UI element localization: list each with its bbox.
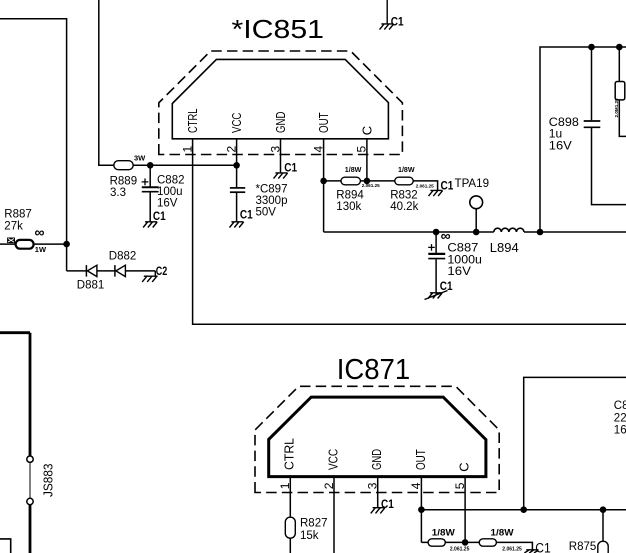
resistor R894	[341, 177, 360, 185]
resistor 1/8W right IC871	[479, 539, 496, 546]
test point TPA19	[470, 196, 483, 209]
op-amp regulator IC851 dashed outline	[159, 51, 403, 155]
svg-text:1/8W: 1/8W	[432, 528, 456, 538]
svg-text:22: 22	[614, 412, 626, 424]
wire VCC feed vertical	[99, 0, 114, 165]
capacitor C897	[236, 165, 238, 187]
svg-text:OUT: OUT	[316, 112, 331, 133]
resistor R889	[114, 161, 133, 170]
svg-text:C1: C1	[441, 178, 454, 192]
label IC871	[337, 354, 411, 386]
label C8xx partial	[614, 400, 626, 437]
wire C898 net	[540, 47, 626, 232]
svg-text:GND: GND	[273, 112, 288, 133]
wire R894 row	[324, 181, 438, 191]
svg-text:OUT: OUT	[413, 449, 428, 470]
node pin5	[364, 178, 371, 185]
node VCC junction	[233, 162, 240, 169]
svg-text:R832: R832	[390, 189, 418, 201]
svg-text:C8: C8	[614, 400, 626, 412]
wire pin4 IC871	[420, 477, 422, 543]
node pin5 IC871	[462, 539, 469, 546]
svg-text:3.3: 3.3	[110, 187, 126, 199]
connector JS883 rail	[0, 333, 30, 553]
svg-text:D882: D882	[109, 251, 137, 263]
svg-text:16V: 16V	[549, 138, 572, 152]
node R875	[600, 506, 607, 513]
svg-text:2.061.25: 2.061.25	[502, 547, 522, 553]
svg-text:C1: C1	[153, 209, 166, 223]
wire pin2 VCC	[236, 139, 238, 166]
svg-text:40.2k: 40.2k	[390, 201, 418, 213]
svg-text:R894: R894	[336, 189, 364, 201]
svg-text:∞: ∞	[35, 224, 45, 240]
ground C1 of C882	[143, 222, 157, 228]
svg-text:130k: 130k	[336, 201, 361, 213]
wire resistor row IC871	[421, 542, 532, 549]
svg-text:C: C	[359, 126, 374, 135]
svg-text:C1: C1	[240, 207, 253, 221]
svg-text:C1: C1	[535, 541, 551, 553]
svg-text:2.061.25: 2.061.25	[416, 183, 434, 188]
svg-text:C1: C1	[284, 161, 297, 175]
resistor R887 fusible box	[7, 238, 15, 244]
svg-text:R889: R889	[110, 175, 138, 187]
svg-text:1/8W: 1/8W	[398, 165, 415, 174]
svg-text:50V: 50V	[256, 206, 277, 218]
svg-text:CTRL: CTRL	[185, 109, 200, 134]
node C882 junction	[147, 162, 154, 169]
svg-text:CTRL: CTRL	[282, 438, 297, 470]
wire pin5 IC871	[464, 477, 466, 543]
ground C1 pin3	[274, 173, 288, 179]
resistor R875	[602, 510, 604, 542]
svg-text:*C897: *C897	[256, 183, 288, 195]
ground C1 pin3 IC871	[371, 508, 385, 514]
resistor R827	[285, 517, 295, 538]
node R top-right	[616, 44, 623, 51]
svg-text:C1: C1	[381, 497, 394, 511]
ground C1 bottom	[524, 550, 538, 553]
resistor top-right vertical	[619, 47, 626, 136]
capacitor C887	[435, 232, 437, 253]
node junction R887/diodes	[63, 241, 70, 248]
pin name CTRL	[185, 109, 374, 136]
svg-text:TPA19: TPA19	[455, 176, 490, 190]
resistor R887 body	[16, 240, 34, 249]
svg-text:16: 16	[614, 424, 626, 436]
wire OUT rail	[324, 231, 626, 233]
svg-text:*IC851: *IC851	[232, 16, 325, 44]
pin numbers IC851	[180, 146, 368, 153]
box corner right-mid	[524, 377, 626, 509]
node C887	[433, 229, 440, 236]
svg-text:16V: 16V	[447, 264, 471, 278]
ground C1 of C897	[230, 222, 244, 228]
pin numbers IC871	[278, 482, 467, 489]
svg-text:VCC: VCC	[229, 113, 244, 133]
wire pin1 IC871	[289, 477, 291, 553]
inductor L894	[494, 228, 524, 232]
svg-text:1/8W: 1/8W	[491, 528, 515, 538]
svg-text:L894: L894	[490, 240, 519, 255]
svg-text:R887: R887	[4, 208, 32, 220]
wire pin2 IC871	[333, 477, 335, 553]
svg-text:27k: 27k	[4, 220, 23, 232]
label D881	[77, 251, 137, 292]
svg-text:100u: 100u	[157, 186, 183, 198]
svg-text:2.061.25: 2.061.25	[450, 547, 470, 553]
svg-text:2.061.25: 2.061.25	[362, 183, 380, 188]
svg-text:JS883: JS883	[40, 464, 55, 498]
wire pin5 C	[366, 139, 368, 181]
IC851 body	[172, 59, 388, 138]
wire JS883 link	[29, 463, 31, 499]
wire diode branch	[67, 270, 156, 272]
svg-text:R875: R875	[569, 541, 597, 553]
node TPA19	[473, 229, 480, 236]
node pin4 IC871	[418, 506, 425, 513]
resistor 1/8W left IC871	[428, 539, 445, 546]
wire R887 net left	[0, 243, 67, 245]
svg-text:15k: 15k	[300, 530, 319, 542]
svg-text:2.0M1.25: 2.0M1.25	[614, 98, 619, 118]
svg-text:C1: C1	[440, 279, 453, 293]
label JS883	[40, 464, 55, 498]
label R887	[4, 208, 47, 254]
svg-text:16V: 16V	[157, 197, 178, 209]
wire pin3 IC871	[377, 477, 379, 508]
svg-text:3300p: 3300p	[256, 195, 288, 207]
node C898	[588, 44, 595, 51]
regulator IC871 dashed outline	[255, 386, 499, 492]
node L894 right	[537, 229, 544, 236]
wire pin4 OUT	[323, 139, 325, 232]
svg-text:1W: 1W	[35, 245, 47, 254]
JS883 pin circle top	[27, 456, 33, 462]
resistor R832	[395, 177, 413, 185]
diode D882	[114, 265, 116, 277]
JS883 pin circle bottom	[27, 498, 33, 504]
box corner bottom-left	[0, 539, 11, 553]
node pin4	[320, 178, 327, 185]
capacitor C898	[591, 47, 593, 120]
wire R889 to VCC pin	[133, 164, 236, 166]
svg-text:3W: 3W	[134, 154, 146, 163]
svg-text:C1: C1	[391, 16, 404, 28]
svg-text:D881: D881	[77, 280, 105, 292]
diode D881	[85, 265, 87, 277]
svg-text:IC871: IC871	[337, 354, 411, 386]
wire top-left corner net	[0, 19, 67, 271]
node C8xx box	[520, 506, 527, 513]
wire OUT rail IC871	[421, 509, 626, 511]
ground C1 R832	[429, 190, 443, 196]
svg-text:R827: R827	[300, 517, 328, 529]
ground C2	[142, 271, 157, 282]
IC871 body	[269, 397, 486, 477]
ground C1 top	[380, 0, 394, 30]
wire pin3 GND	[280, 139, 282, 173]
capacitor C882	[149, 165, 151, 186]
svg-text:C2: C2	[156, 264, 168, 278]
svg-text:VCC: VCC	[325, 449, 340, 470]
svg-text:1/8W: 1/8W	[345, 165, 362, 174]
svg-text:C882: C882	[157, 174, 185, 186]
pin name CTRL IC871	[282, 438, 472, 472]
ground C1 C887	[425, 291, 448, 300]
wire pin1 CTRL long	[193, 139, 626, 324]
svg-text:GND: GND	[369, 449, 384, 470]
svg-text:C: C	[457, 462, 472, 471]
label *IC851	[232, 16, 325, 44]
